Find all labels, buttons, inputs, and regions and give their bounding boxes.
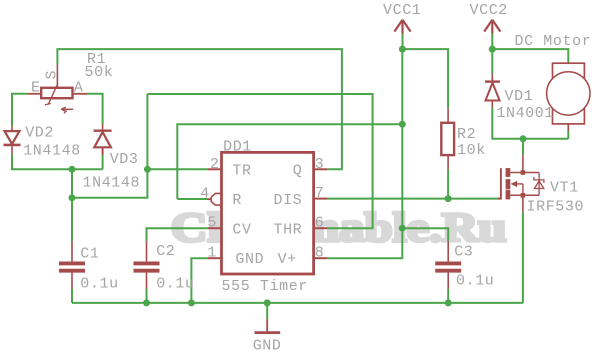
node R pin tie [399, 121, 406, 128]
svg-text:555 Timer: 555 Timer [222, 278, 308, 295]
power VCC2 arrow [484, 20, 500, 34]
wire C1 junction vertical [71, 169, 73, 241]
svg-text:10k: 10k [457, 142, 486, 159]
node rail C2 [143, 299, 150, 306]
gate bar [500, 168, 502, 199]
svg-text:50k: 50k [85, 64, 114, 81]
capacitor C1 [59, 241, 85, 289]
pin 5 stub [208, 227, 222, 229]
svg-text:CV: CV [232, 222, 251, 239]
svg-text:DC Motor: DC Motor [515, 33, 592, 50]
node V+ tie [399, 225, 406, 232]
svg-text:8: 8 [315, 245, 325, 262]
motor M1 body [547, 63, 590, 131]
wire ground rail [72, 302, 523, 304]
node rail pin1 [188, 299, 195, 306]
svg-text:2: 2 [210, 156, 220, 173]
node rail C3 [445, 299, 452, 306]
node drain tie [520, 135, 527, 142]
diode VD2 [4, 126, 21, 154]
resistor R1 potentiometer body [27, 64, 87, 105]
svg-text:VD3: VD3 [110, 151, 139, 168]
svg-text:VD2: VD2 [25, 125, 54, 142]
svg-text:R: R [232, 192, 242, 209]
svg-text:0.1u: 0.1u [456, 272, 494, 289]
wire source to rail [522, 212, 524, 303]
IC DD1 555 body [222, 152, 314, 274]
svg-text:R2: R2 [457, 126, 476, 143]
svg-text:Q: Q [293, 163, 303, 180]
svg-text:5: 5 [207, 215, 217, 232]
source lead [510, 194, 539, 196]
svg-text:VT1: VT1 [550, 180, 579, 197]
diode VD1 [485, 74, 500, 108]
node TR loop left [69, 166, 76, 173]
wire VCC2 stem [491, 34, 493, 50]
channel bar middle [506, 179, 511, 189]
svg-text:VD1: VD1 [505, 88, 534, 105]
wire R pin4 to VCC vertical [177, 198, 207, 200]
svg-text:THR: THR [273, 222, 302, 239]
svg-text:V+: V+ [278, 251, 297, 268]
wire pot left lead green [12, 94, 27, 127]
gate lead red [498, 198, 501, 200]
svg-text:VCC2: VCC2 [470, 2, 508, 19]
svg-text:A: A [74, 80, 84, 97]
svg-text:IRF530: IRF530 [527, 199, 585, 216]
substrate arrow [511, 181, 518, 187]
body diode [538, 173, 540, 196]
svg-text:1N4148: 1N4148 [23, 142, 81, 159]
wire VCC1 to R2 top [402, 49, 448, 108]
svg-text:1N4148: 1N4148 [83, 175, 141, 192]
node gate tie [445, 195, 452, 202]
wire VD3 bottom corner [102, 148, 104, 170]
node junction dots [69, 46, 527, 307]
svg-text:1: 1 [207, 245, 217, 262]
ground symbol [255, 319, 281, 333]
watermark ChipEnable.Ru [171, 204, 507, 250]
wire motor bottom green [567, 131, 569, 139]
node rail GND [264, 299, 271, 306]
power VCC1 arrow [394, 20, 410, 34]
svg-text:C2: C2 [156, 243, 175, 260]
wire DIS to gate [327, 198, 498, 200]
wire VCC1 vertical [402, 34, 404, 50]
transistor VT1 MOSFET [498, 154, 544, 212]
drain lead [510, 172, 539, 174]
svg-text:0.1u: 0.1u [80, 276, 118, 293]
wire drain node down [522, 139, 524, 154]
capacitor C3 [435, 241, 461, 289]
wire TR to pin2 [147, 168, 208, 170]
svg-text:3: 3 [315, 156, 325, 173]
resistor R2 body [441, 108, 454, 169]
node C1 top [69, 194, 76, 201]
svg-text:TR: TR [232, 163, 251, 180]
svg-text:7: 7 [315, 185, 325, 202]
wire R2 bottom to DIS line [447, 169, 449, 198]
svg-text:6: 6 [315, 215, 325, 232]
svg-text:GND: GND [235, 251, 264, 268]
wire top net Q: R1 wiper to pin3 vertical [57, 49, 342, 169]
node VCC1 [399, 46, 406, 53]
pin 7 stub [314, 198, 327, 200]
capacitor C2 [134, 241, 160, 289]
resistor R1 trim arrow [61, 107, 73, 113]
diode VD3 [94, 125, 112, 155]
pin 1 stub [208, 257, 222, 259]
svg-text:E: E [31, 80, 41, 97]
node VCC2 [489, 46, 496, 53]
wire VCC2 to motor top [492, 49, 568, 63]
channel bar bottom [506, 190, 511, 199]
pin 4 bubble [211, 193, 221, 205]
wire C2 bottom [146, 289, 148, 303]
svg-text:4: 4 [200, 186, 210, 203]
wire GND symbol stem green [266, 303, 268, 319]
wire TR-THR link y94 [147, 94, 372, 228]
wire VD1 bottom to drain node [492, 108, 568, 139]
pin 3 stub [314, 168, 327, 170]
svg-text:C1: C1 [80, 245, 99, 262]
svg-text:DD1: DD1 [223, 138, 252, 155]
pin 8 stub [314, 257, 327, 259]
wire CV to C2 [147, 228, 208, 241]
wire THR dot to C3 [402, 228, 448, 241]
svg-text:C3: C3 [454, 244, 473, 261]
svg-text:0.1u: 0.1u [156, 276, 194, 293]
wire TR branch vertical x147 [72, 94, 147, 198]
wire VD2 bottom to bottom loop [12, 154, 103, 169]
wire C3 bottom [447, 289, 449, 303]
wire C1 bottom [71, 289, 73, 303]
pin 6 stub [314, 227, 327, 229]
pin 2 stub [208, 168, 222, 170]
channel bar top [506, 168, 511, 177]
svg-text:DIS: DIS [273, 192, 302, 209]
svg-text:S: S [44, 70, 61, 80]
svg-text:1N4001: 1N4001 [496, 105, 554, 122]
wire VCC2 to VD1 [491, 49, 493, 74]
wire pin1 GND to rail [191, 258, 208, 303]
node TR branch [144, 166, 151, 173]
wire C1 top lead [71, 198, 73, 242]
svg-text:GND: GND [253, 337, 282, 354]
wire pot right lead green [87, 94, 102, 125]
svg-text:VCC1: VCC1 [383, 2, 421, 19]
